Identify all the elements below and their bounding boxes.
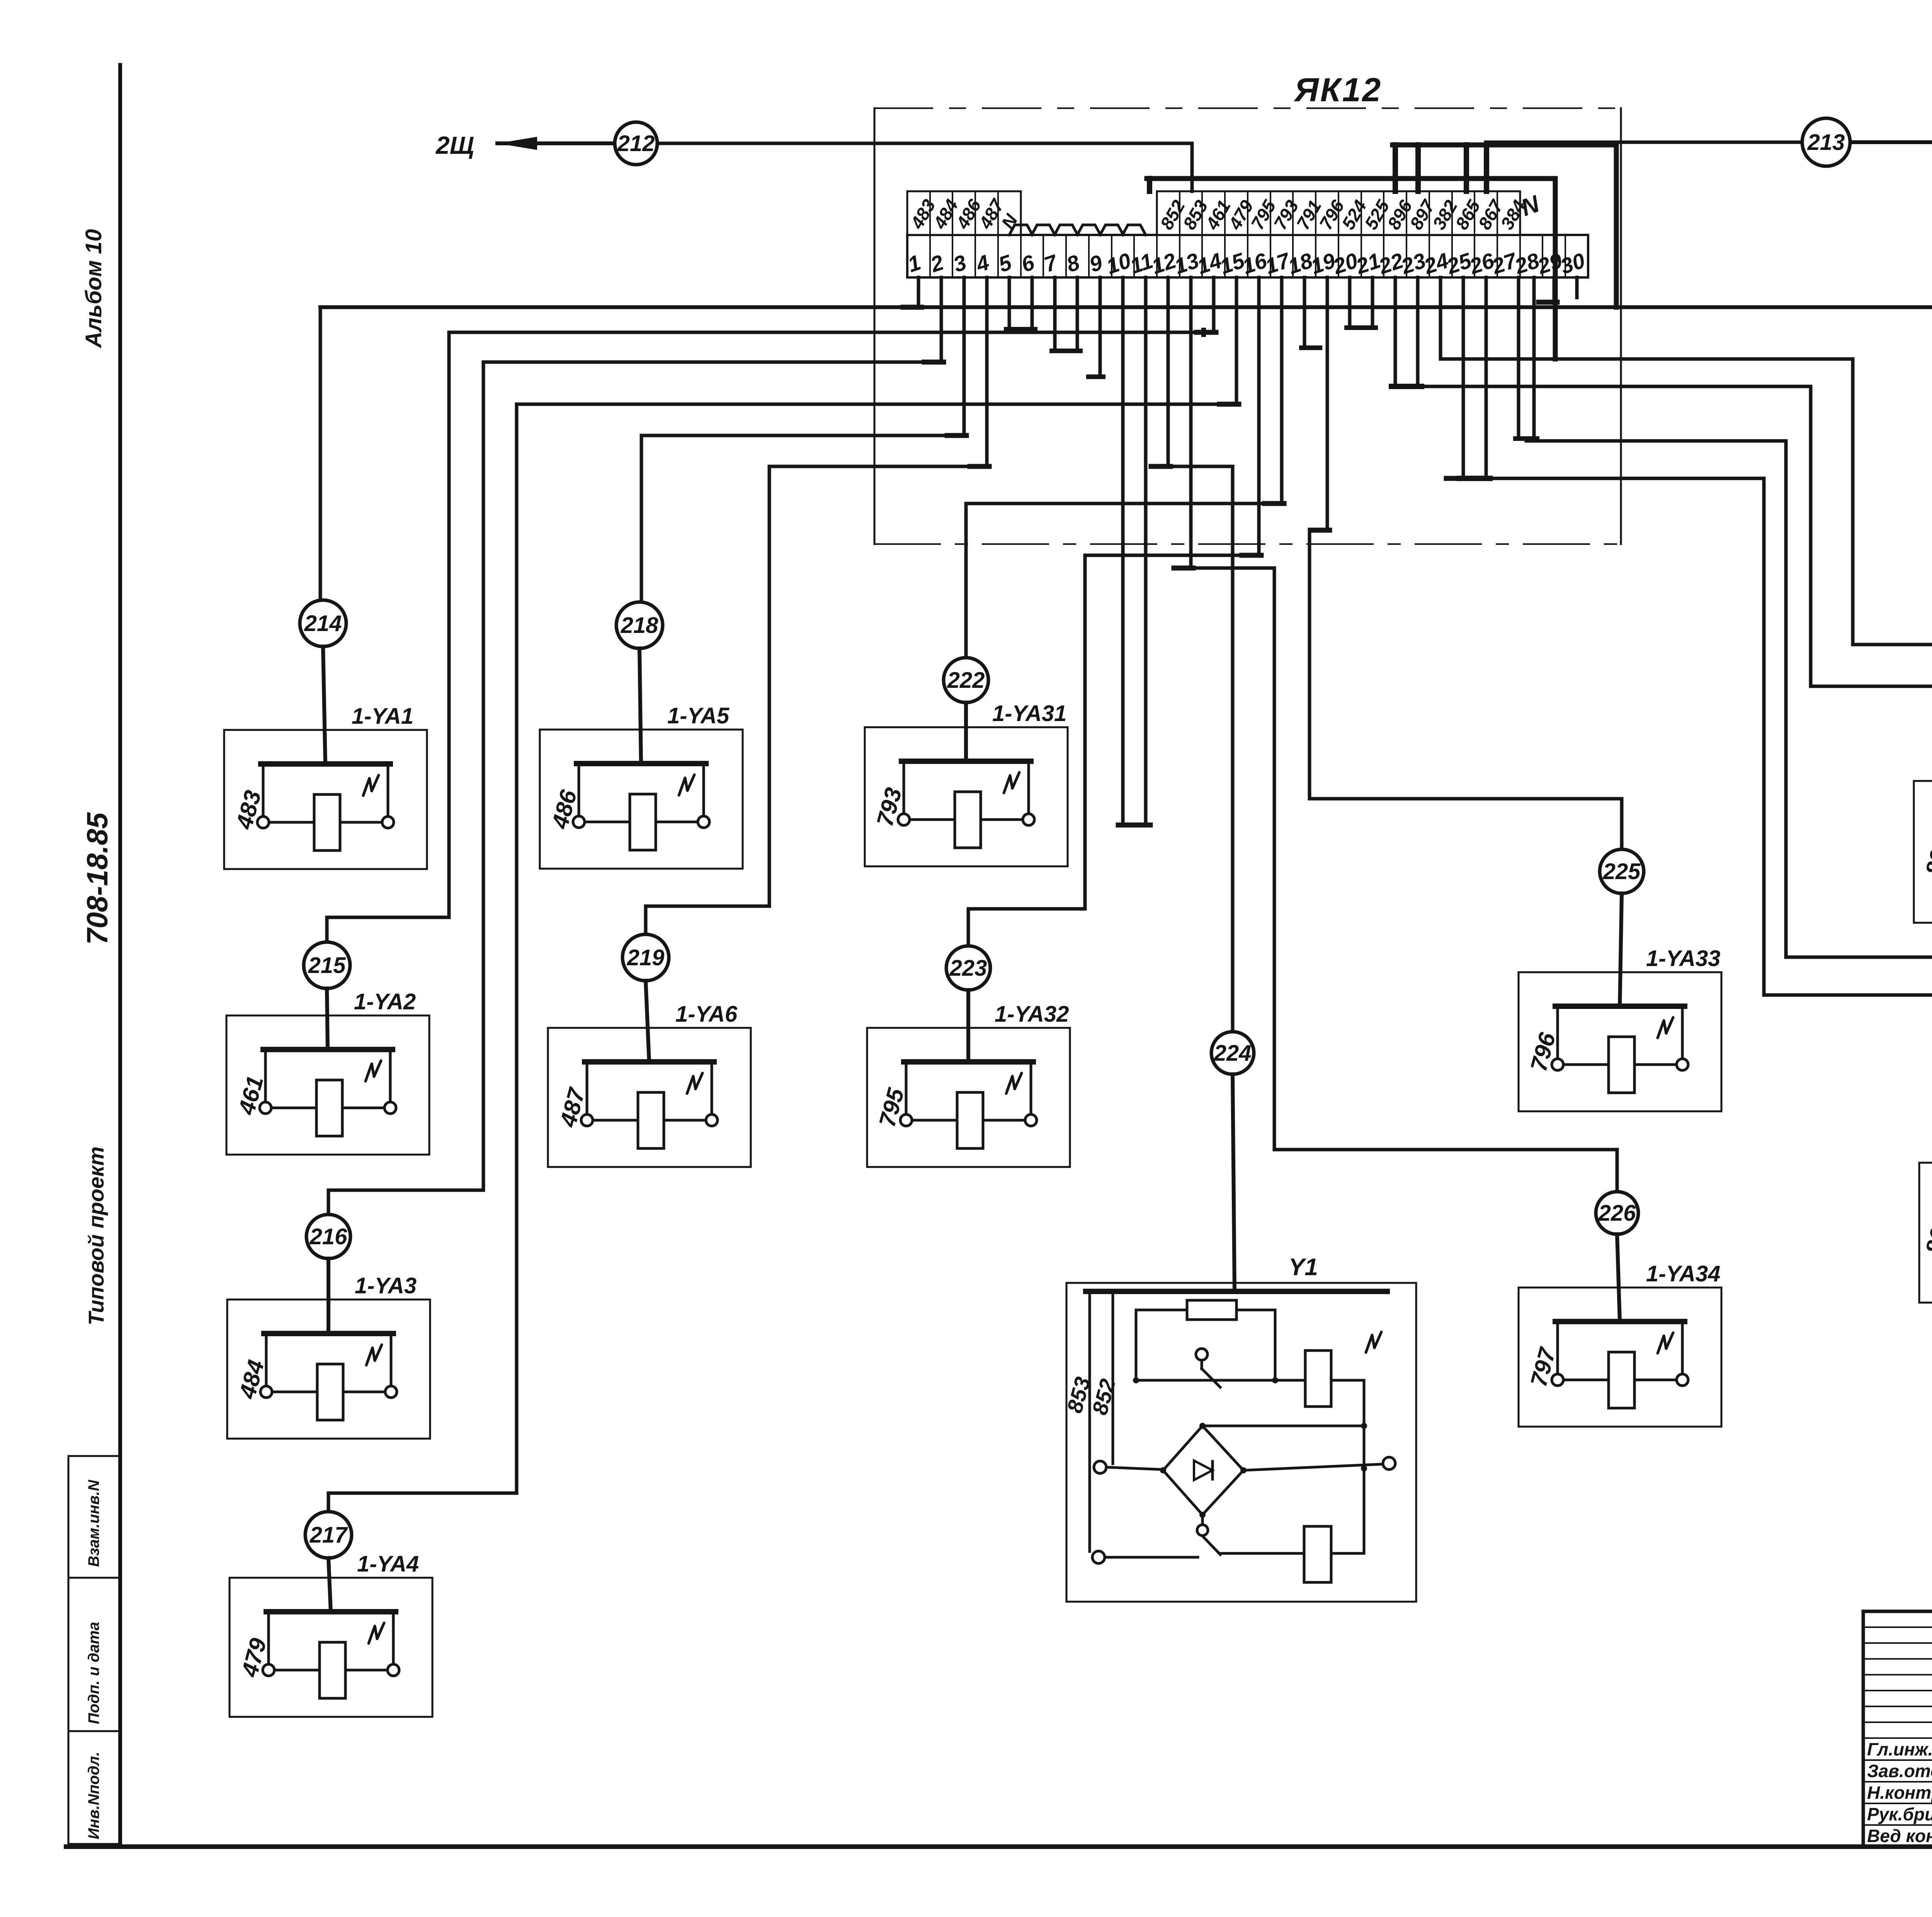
svg-text:222: 222 [947,668,985,693]
wire label row 852..384 over terminals 12-27 [1157,191,1520,235]
wire number circle 216 [306,1214,350,1259]
svg-text:1-YA33: 1-YA33 [1646,946,1720,971]
svg-text:1-YA5: 1-YA5 [667,703,730,728]
wire terminal 13 to circle 226 [1191,277,1617,1192]
wire terminal 15 to circle 217 [328,277,1236,1512]
jumper stub pair terminals 20-21 [1348,277,1352,328]
stub terminal 18 [1303,277,1306,348]
wire terminal 16 to circle 223 [968,277,1259,946]
svg-text:1-YA4: 1-YA4 [357,1551,419,1577]
wire number circle 225 [1600,849,1644,893]
wire terminal 23 to circle 227 SK1 [1418,277,1932,706]
solenoid 1-YA3 [227,1259,430,1439]
title block signature rows [1863,1759,1932,1761]
solenoid 1-YA6 [548,981,751,1167]
wire terminal 3 to circle 218 [641,277,964,602]
svg-text:1-YA32: 1-YA32 [995,1002,1069,1027]
rectifier unit Y1 [1062,1074,1416,1602]
jumper comb bumps over terminals 6-11 [1009,225,1146,235]
svg-text:216: 216 [310,1224,348,1249]
svg-text:219: 219 [627,945,665,970]
wire number circle 219 [622,934,669,981]
wire terminal 24 / bus B to circle 230 HA13 [1439,277,1442,359]
wire number circle 217 [305,1512,352,1558]
stub terminal 30 [1575,277,1579,298]
svg-text:1-YA2: 1-YA2 [354,989,416,1014]
svg-text:225: 225 [1603,859,1641,884]
svg-text:Рук.бриг: Рук.бриг [1867,1804,1932,1824]
svg-text:213: 213 [1807,130,1845,155]
stub terminal 29 [1553,277,1556,302]
wire terminal 1 to circle 214 [917,277,920,307]
solenoid 1-YA5 [540,648,743,869]
wire number circle 226 [1596,1192,1638,1234]
wire terminal 25 to circle 228 BK1 [1463,277,1932,1087]
drawing frame left border [118,65,122,1847]
sidebar stamp box Взам.инв.N [68,1456,120,1578]
svg-text:224: 224 [1214,1041,1252,1066]
wire circle 213 to 3Я with arrowhead [1850,140,1932,144]
svg-text:Инв.Nподл.: Инв.Nподл. [85,1752,102,1839]
wire junction caps row1 [903,305,922,310]
svg-text:215: 215 [308,953,346,978]
stub terminal 9 [1099,277,1102,377]
solenoid 1-YA33 [1519,893,1721,1111]
wire bus y782 across page [320,305,1932,309]
solenoid 1-YA4 [230,1551,432,1717]
bus riser terminal 23 [1415,145,1421,191]
wire terminal 14 to circle 215 [327,277,1214,942]
wire terminal 4 to circle 219 [646,277,987,934]
svg-text:226: 226 [1598,1201,1636,1226]
title block thin rows [1863,1626,1932,1628]
svg-text:Взам.инв.N: Взам.инв.N [85,1480,102,1567]
bus riser terminal 12 [1147,179,1152,191]
svg-text:Н.контр.: Н.контр. [1867,1783,1932,1803]
solenoid 1-YA31 [865,701,1068,866]
bus riser terminal 26 [1484,145,1489,191]
solenoid 1-YA2 [226,988,429,1155]
svg-text:Альбом 10: Альбом 10 [81,229,106,349]
svg-text:708-18.85: 708-18.85 [81,812,114,945]
svg-text:Y1: Y1 [1289,1254,1318,1281]
svg-text:214: 214 [304,611,342,636]
wire elbow reinforcements [1197,330,1216,335]
wire number circle 214 [300,600,346,646]
wire terminal 26 label to circle 213 [1486,142,1802,191]
upper bus B [1147,179,1555,359]
svg-text:Вед кон.: Вед кон. [1867,1826,1932,1846]
svg-text:Гл.инж.пр: Гл.инж.пр [1867,1739,1932,1759]
svg-text:218: 218 [621,613,659,638]
svg-text:223: 223 [949,956,987,981]
svg-text:212: 212 [617,131,655,156]
wire number circle 212 [615,122,657,165]
sidebar stamp box Инв.N подл. [68,1731,120,1844]
wire number circle 224 [1211,1032,1254,1074]
dead-end cable pair terminals 10-11 [1121,277,1125,825]
wire terminal 28 to circle 231 HA18 [1517,277,1520,439]
svg-text:Типовой проект: Типовой проект [84,1146,108,1325]
svg-text:1-YA34: 1-YA34 [1646,1261,1720,1286]
svg-text:1-YA31: 1-YA31 [992,701,1066,726]
wire circle212 to terminal 13 label [657,143,1192,191]
terminal box ЯК12 outline [874,108,876,544]
wire 212 to 2Щ with arrowhead [497,141,615,145]
wire number circle 213 [1802,118,1850,166]
thermistor BK1 [1919,1131,1932,1303]
wire terminal 17 to circle 222 [966,277,1282,658]
wire number circle 218 [616,602,663,648]
bus riser terminal 25 [1464,145,1469,191]
svg-text:1-YA3: 1-YA3 [355,1273,417,1298]
svg-text:1-YA1: 1-YA1 [352,704,413,729]
svg-text:Подп. и дата: Подп. и дата [85,1622,102,1724]
terminal strip ЯК12 numbered row 1-30 [907,235,1588,277]
svg-text:ЯК12: ЯК12 [1294,71,1382,109]
sidebar stamp box Подп. и дата [68,1578,120,1731]
wire terminal 2 to circle 216 [328,277,941,1214]
wire terminal 19 to circle 225 [1310,277,1622,849]
cable pair caps t22-23 and t25-26 [1394,277,1397,386]
wire label row 483 484 486 487 N over terminals 1-5 [907,191,1021,235]
drawing frame bottom border [66,1844,1932,1849]
jumper stub pair terminals 5-6 [1008,277,1011,329]
jumper stub pair terminals 7-8 [1053,277,1057,351]
wire number circle 222 [944,658,988,703]
solenoid 1-YA1 [224,646,427,869]
wire number circle 223 [946,946,990,990]
upper bus A [1393,145,1616,307]
svg-text:2Щ: 2Щ [435,131,474,159]
solenoid 1-YA32 [867,990,1070,1167]
bus riser terminal 22 [1393,145,1398,191]
solenoid 1-YA34 [1519,1234,1721,1427]
wire terminal 12 to circle 224 [1168,277,1233,1032]
svg-text:1-YA6: 1-YA6 [675,1002,738,1027]
svg-text:217: 217 [310,1522,349,1548]
wire number circle 215 [304,942,350,988]
title block outline [1863,1611,1932,1847]
thermostat SK1 [1914,751,1932,923]
svg-text:Зав.отд: Зав.отд [1867,1761,1932,1781]
